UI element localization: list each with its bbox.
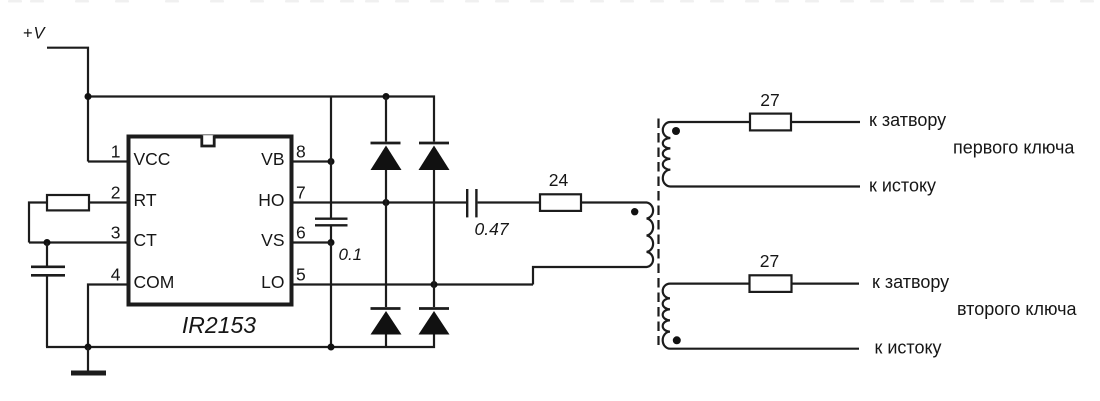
wire R24 to transformer — [581, 201, 637, 203]
svg-text:3: 3 — [111, 223, 121, 243]
resistor 27 top — [750, 114, 791, 131]
transformer T1 secondary winding 2 — [663, 284, 859, 349]
svg-text:7: 7 — [296, 183, 306, 203]
svg-text:+: + — [23, 25, 33, 43]
svg-text:VS: VS — [261, 230, 284, 250]
node junction dot CT — [44, 239, 51, 246]
diode top-right — [419, 142, 449, 145]
svg-text:HO: HO — [258, 190, 284, 210]
wire bottom ground rail — [46, 335, 434, 348]
node junction dot HO-diodes — [383, 199, 390, 206]
transformer T1 primary winding — [637, 203, 653, 268]
decorative faint top artifacts — [8, 0, 1094, 3]
wire HO line — [294, 201, 467, 203]
svg-text:2: 2 — [111, 183, 121, 203]
svg-text:к затвору: к затвору — [872, 272, 949, 292]
svg-text:27: 27 — [760, 90, 779, 110]
svg-text:5: 5 — [296, 265, 306, 285]
wire R27 bottom to label — [792, 283, 860, 285]
svg-text:VCC: VCC — [134, 149, 171, 169]
svg-text:27: 27 — [760, 251, 779, 271]
svg-text:к затвору: к затвору — [869, 110, 946, 130]
wire +V to VCC vertical — [47, 48, 88, 162]
node phase dot secondary2 — [673, 336, 681, 344]
pin numbers — [111, 142, 306, 285]
node label к затвору второго ключа — [872, 272, 1077, 357]
node junction dot rail top diode — [383, 93, 390, 100]
svg-text:24: 24 — [549, 170, 569, 190]
ground symbol — [87, 347, 89, 371]
svg-text:к истоку: к истоку — [869, 175, 936, 195]
wire RT lead left down — [29, 203, 47, 243]
node junction dot LO-diodes — [431, 281, 438, 288]
capacitor 0.1 (VB-VS) — [330, 162, 332, 218]
node phase dot secondary1 — [672, 127, 680, 135]
svg-text:первого ключа: первого ключа — [953, 137, 1075, 157]
capacitor at CT pin — [46, 243, 48, 266]
wire VCC lead pin1 — [88, 160, 127, 162]
svg-text:LO: LO — [261, 272, 284, 292]
capacitor 0.47 series — [466, 189, 468, 217]
wire LO line — [294, 283, 534, 285]
wire RT lead right — [89, 201, 127, 203]
wire LO step up to transformer — [533, 267, 637, 285]
svg-text:второго ключа: второго ключа — [957, 299, 1077, 319]
transformer core dashed — [657, 119, 659, 346]
transformer T1 secondary winding 1 — [663, 122, 860, 187]
svg-text:4: 4 — [111, 265, 121, 285]
wire VB vertical to rail — [330, 97, 332, 162]
svg-text:8: 8 — [296, 142, 306, 162]
wire VB lead — [294, 160, 332, 162]
svg-text:1: 1 — [111, 142, 121, 162]
diode bottom-left — [385, 203, 387, 308]
node +V label — [23, 25, 47, 43]
svg-text:CT: CT — [134, 230, 158, 250]
svg-text:к истоку: к истоку — [875, 337, 942, 357]
svg-text:0.1: 0.1 — [339, 245, 363, 264]
resistor 24 — [540, 194, 581, 211]
svg-text:RT: RT — [134, 190, 157, 210]
svg-text:6: 6 — [296, 223, 306, 243]
node label к затвору первого ключа — [869, 110, 1075, 195]
node junction dot ground — [85, 344, 92, 351]
diode top-left — [385, 97, 387, 142]
svg-text:COM: COM — [134, 272, 175, 292]
resistor at RT pin — [47, 195, 89, 210]
node junction dot +V rail — [85, 93, 92, 100]
IC notch — [202, 135, 214, 146]
wire CT line — [29, 241, 127, 243]
svg-text:0.47: 0.47 — [475, 219, 510, 239]
wire top supply rail — [88, 97, 434, 142]
wire COM lead — [88, 285, 127, 348]
wire cap to R24 — [478, 201, 540, 203]
IC pin labels — [134, 149, 285, 292]
node junction dot rail-VS — [328, 344, 335, 351]
diode bottom-right — [433, 285, 435, 308]
node junction dot VB — [328, 158, 335, 165]
IC IR2153 body — [129, 137, 292, 305]
svg-text:VB: VB — [261, 149, 284, 169]
node junction dot VS — [328, 239, 335, 246]
node phase dot primary — [631, 208, 638, 215]
resistor 27 bottom — [750, 275, 792, 292]
svg-text:IR2153: IR2153 — [182, 312, 256, 338]
wire VS down to rail — [330, 243, 332, 348]
wire VS lead — [294, 241, 332, 243]
